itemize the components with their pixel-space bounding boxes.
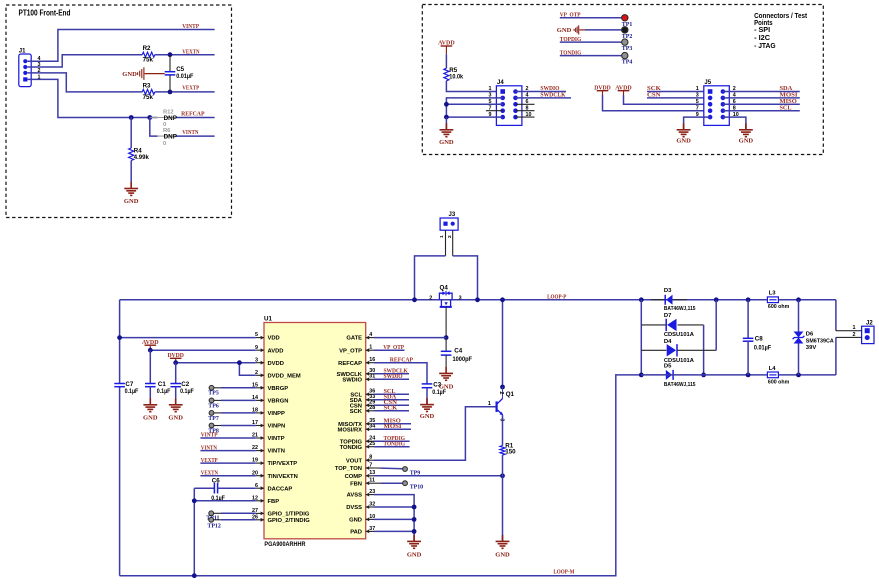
svg-text:COMP: COMP [345,474,363,480]
svg-text:VEXTN: VEXTN [182,49,200,56]
svg-text:8: 8 [369,455,372,461]
wire VINTN stub [200,450,255,452]
wire J3 pin2 to LOOP-P [453,256,478,300]
wire VP_OTP stub [374,349,405,351]
junction J3 left on rail [412,297,417,302]
svg-text:D3: D3 [664,288,672,294]
wire DACCAP down to FBP junction and bottom rail [193,488,195,576]
junction COMP/R1 [500,473,505,478]
wire J1 pin1 to REFCAP row [28,79,158,117]
wire J4 pin3 to ground rail [446,98,502,117]
wire REFCAP right segment [176,117,215,119]
wire VOUT to Q1 base [374,407,496,461]
svg-text:DVDD: DVDD [268,361,284,367]
junction rail at D4 riser [714,297,719,302]
svg-text:TP6: TP6 [208,403,219,409]
svg-text:C2: C2 [181,381,189,388]
wire to J4 ground [445,117,447,130]
junction R4 tap [129,115,134,120]
junction FBP [192,498,197,503]
wire VEXTP right segment [155,91,215,93]
svg-text:GND: GND [349,518,362,524]
svg-text:D7: D7 [664,313,672,319]
svg-text:J1: J1 [19,48,26,54]
svg-text:2: 2 [429,296,432,302]
svg-text:C7: C7 [125,381,133,388]
svg-text:BAT46WJ,115: BAT46WJ,115 [664,382,696,388]
wire Q1 emitter to R1 [502,415,504,446]
svg-text:1: 1 [853,325,856,331]
svg-text:VINTP: VINTP [182,23,199,30]
svg-text:Q4: Q4 [440,284,449,291]
wire TONDIG to TP4 [560,55,622,57]
svg-text:10.0k: 10.0k [449,73,463,80]
resistor R12 DNP [150,117,158,119]
svg-text:0.01µF: 0.01µF [176,73,193,80]
svg-text:Q1: Q1 [506,391,515,398]
wire AVDD pin [150,349,256,351]
wire GATE to Q4 gate node [374,337,446,339]
junction top rail at D6 [796,297,801,302]
svg-text:1: 1 [488,401,491,407]
junction on bottom rail [192,573,197,578]
junction GND pin [412,517,417,522]
ground GND below R4 [130,182,132,189]
svg-text:SWDIO: SWDIO [342,377,362,383]
svg-text:4: 4 [369,332,372,338]
ground GND below R1 [502,535,504,542]
wire J4 pin7 stub [486,110,503,112]
svg-text:GND: GND [168,414,183,421]
ground GND power port at C5 [145,73,165,75]
junction bottom rail at D6 [796,373,801,378]
junction DVSS [412,505,417,510]
junction VDD on left rail [117,335,122,340]
wire Q4 gate to GATE pin [445,307,447,338]
wire SWDCLK stub [374,373,409,375]
svg-text:150: 150 [505,449,516,456]
junction bottom rail at D stack left [639,373,644,378]
wire DVDD pin [176,362,256,364]
svg-text:VDD: VDD [268,336,280,342]
wire VINTN jog [150,118,158,137]
svg-text:4.99k: 4.99k [134,154,150,161]
svg-text:LOOP-M: LOOP-M [553,568,574,575]
svg-text:VBRGP: VBRGP [268,386,289,392]
svg-text:D5: D5 [664,363,672,369]
svg-text:C1: C1 [158,381,166,388]
test point TP8 [209,423,214,428]
wire J2 pin1 from LOOP-P [835,300,837,331]
ground GND power port at TP2 [573,29,575,31]
svg-text:CDSU101A: CDSU101A [664,332,695,338]
svg-text:TONDIG: TONDIG [340,445,363,451]
ground GND below J4 [445,123,447,130]
svg-text:39V: 39V [806,345,817,351]
wire LOOP-P top rail [120,299,836,301]
svg-text:DVSS: DVSS [346,505,362,511]
capacitor C1 0.1uF [149,350,151,383]
wire J5 pin8 SCL [723,110,800,112]
resistor R3 75k [142,89,154,94]
J3 pin leads [445,230,447,256]
wire TP2 [585,29,621,31]
ground GND below AVSS chain [413,535,415,542]
wire SDA stub [374,399,409,401]
test point TP6 [209,398,214,403]
svg-text:GND: GND [143,414,158,421]
test point TP10 [374,482,381,484]
svg-text:GND: GND [420,413,435,420]
wire CSN stub [374,404,409,406]
ground GND below C4 [445,367,447,374]
svg-text:1: 1 [489,86,492,92]
wire VEXTP stub [200,462,255,464]
svg-text:PGA900ARHHR: PGA900ARHHR [264,541,306,548]
wire J1 pin3 to VEXTN [28,55,143,67]
test point TP12 [209,517,214,522]
svg-text:TP5: TP5 [208,391,219,397]
svg-text:VINTN: VINTN [182,129,199,136]
wire FBP [194,500,256,502]
svg-text:FBN: FBN [350,481,362,487]
svg-text:3: 3 [696,93,699,99]
resistor R5 10.0k [444,68,449,81]
wire AVSS chain to ground [374,495,414,542]
svg-text:7: 7 [369,462,372,468]
capacitor C4 1000pF [445,338,447,352]
wire VEXTN right segment [155,54,215,56]
svg-text:MOSI/RX: MOSI/RX [338,427,363,433]
svg-text:0.1µF: 0.1µF [157,388,171,395]
svg-text:DACCAP: DACCAP [268,486,293,492]
svg-text:- JTAG: - JTAG [754,41,776,50]
junction Q1 collector node [500,385,505,390]
svg-text:GND: GND [557,27,572,34]
svg-text:DVDD_MEM: DVDD_MEM [268,373,301,379]
wire R1 to COMP junction and ground [502,455,504,541]
svg-text:C3: C3 [433,381,441,388]
capacitor C2 0.1uF [175,363,177,384]
wire SCK to J5 pin1 [647,91,710,93]
junction J4 gnd pin9 [444,115,449,120]
svg-text:R2: R2 [143,45,151,52]
wire MOSI stub [374,428,411,430]
svg-text:BAT46WJ,115: BAT46WJ,115 [664,306,696,312]
wire J4 pin2 SWDIO [516,91,567,93]
svg-text:1: 1 [369,345,372,351]
svg-text:1: 1 [439,235,445,238]
test point TP3 [622,39,628,45]
ground GND below C1 [149,398,151,405]
svg-text:AVSS: AVSS [347,493,362,499]
junction PAD [412,529,417,534]
svg-text:3: 3 [499,419,505,422]
capacitor C6 0.1uF on DACCAP [194,487,214,489]
wire J4 pin9 [446,116,502,118]
U1 left pins: leads, arrows, numbers, names [256,337,264,339]
junction DVDD_MEM branch [237,360,242,365]
frame: Connectors/Test Points dashed box [422,5,823,155]
op-amp U1 PGA900ARHHR body [264,323,366,539]
wire J4 pin6 stub [516,103,535,105]
svg-text:C8: C8 [755,336,763,343]
svg-text:VINPN: VINPN [268,424,286,430]
test point TP9 [374,467,381,469]
svg-text:TP10: TP10 [410,485,423,491]
junction rail at D stack left [639,297,644,302]
wire LOOP-P to Q1 collector [502,300,504,387]
wire VDD to left rail [120,337,256,339]
svg-text:J5: J5 [704,80,711,86]
svg-text:0.01µF: 0.01µF [754,344,771,351]
svg-text:TP12: TP12 [207,523,220,529]
wire J5 pin4 MOSI [723,97,800,99]
wire J4 pin10 stub [516,116,535,118]
wire left vertical rail [119,300,121,384]
wire REFCAP to C3 [374,363,427,384]
svg-text:GATE: GATE [346,336,362,342]
wire J1 pin4 to VINTP [28,30,215,62]
svg-text:PAD: PAD [350,530,362,536]
wire TOPDIG stub [374,440,410,442]
svg-text:J4: J4 [497,80,504,86]
svg-text:TP7: TP7 [208,416,219,422]
header J5 [704,86,730,126]
svg-text:600 ohm: 600 ohm [768,304,789,310]
U1 right pins: leads, arrows, numbers, names [366,337,374,339]
svg-text:C4: C4 [454,347,462,354]
svg-text:TOP_TON: TOP_TON [335,466,362,472]
header J4 [496,86,522,126]
wire J5 pin2 SDA [723,91,800,93]
svg-text:R3: R3 [143,83,151,90]
connector J3 [440,218,458,230]
svg-text:GND: GND [407,552,422,559]
ground GND below C3 [426,398,428,405]
wire DVSS [374,506,414,508]
ground GND below C2 [175,398,177,405]
svg-text:VINTP: VINTP [268,436,285,442]
wire AVDD to R5 [445,54,447,68]
wire VP_OTP to TP1 [560,17,622,19]
svg-text:U1: U1 [264,316,272,323]
resistor R4 4.99k [129,148,134,160]
junction J4 gnd pin5 [444,102,449,107]
wire D stack left vertical [640,300,642,375]
capacitor C7 0.1uF [114,383,125,385]
wire SCK stub [374,410,409,412]
wire R4 top [130,118,132,149]
svg-text:75k: 75k [143,57,154,64]
svg-text:TIN/VEXTN: TIN/VEXTN [268,474,298,480]
svg-text:GND: GND [739,138,754,145]
svg-text:TIP/VEXTP: TIP/VEXTP [268,461,298,467]
svg-text:3: 3 [459,296,462,302]
frame: PT100 Front-End dashed box [6,5,232,218]
svg-text:GND: GND [439,139,454,146]
svg-text:L3: L3 [769,291,777,297]
junction rail at Q1 [500,297,505,302]
test point TP4 [622,52,628,58]
junction top rail at C8 [746,297,751,302]
svg-text:VBRGN: VBRGN [268,399,289,405]
svg-text:1: 1 [696,86,699,92]
wire J5 pin9 to ground [684,117,711,130]
wire D4 riser to top rail [715,300,717,351]
test point TP7 [209,411,214,416]
diode D6 SM6T39CA TVS [798,300,800,332]
svg-text:1000pF: 1000pF [453,356,473,363]
junction GATE node [444,335,449,340]
svg-text:GPIO_1/TIPDIG: GPIO_1/TIPDIG [268,512,310,518]
test point TP5 [209,385,214,390]
junction DVDD [173,360,178,365]
resistor R2 75k [142,52,154,57]
wire VINTN right segment [176,135,215,137]
wire bottom LOOP-M rail [120,375,642,576]
wire R5 to J4 pin1 [446,81,496,92]
wire TONDIG stub [374,446,410,448]
svg-text:D6: D6 [806,332,814,338]
wire R4 to ground [130,161,132,189]
svg-text:SWDCLK: SWDCLK [540,92,565,99]
svg-text:7: 7 [696,105,699,111]
junction VEXTP/C5 [168,90,173,95]
wire J5 pin10 to ground [723,117,746,130]
wire J2 pin2 to LOOP-M [836,336,862,338]
wire SWDIO stub [374,378,409,380]
capacitor C3 0.1uF [422,383,433,385]
capacitor C5 0.01uF [169,55,171,72]
svg-text:LOOP-P: LOOP-P [547,293,566,300]
svg-text:GND: GND [495,552,510,559]
resistor R6 DNP [158,135,177,137]
svg-text:J2: J2 [866,321,873,327]
ground GND below J5 pin9 [683,123,685,130]
wire J4 pin4 SWDCLK [516,97,572,99]
wire AVDD to J5 pin5 [624,95,711,104]
svg-text:DNP: DNP [164,134,177,141]
junction AVDD [148,348,153,353]
wire SCL stub [374,393,409,395]
svg-text:J3: J3 [449,212,456,218]
svg-text:L4: L4 [769,366,777,372]
svg-text:D4: D4 [664,339,672,345]
svg-text:75k: 75k [143,94,154,101]
test point TP2 [622,27,628,33]
svg-text:2: 2 [498,392,504,395]
svg-text:VINTN: VINTN [268,449,285,455]
wire CSN to J5 pin3 [647,97,710,99]
svg-text:DNP: DNP [164,115,177,122]
svg-text:SCK: SCK [350,409,363,415]
junction VINTN branch [147,115,152,120]
connector J1 [19,54,31,87]
svg-text:FBP: FBP [268,499,280,505]
svg-text:AVDD: AVDD [268,348,284,354]
wire J4 pin5 [446,103,502,105]
svg-text:VOUT: VOUT [346,458,363,464]
connector J2 [862,326,874,343]
svg-text:0.1µF: 0.1µF [125,388,139,395]
svg-text:REFCAP: REFCAP [338,361,362,367]
wire J5 pin6 MISO [723,103,800,105]
wire VINTP stub [200,437,255,439]
junction VEXTN/C5 [168,52,173,57]
test point TP1 [622,15,628,21]
wire DVDD to DVDD_MEM jog [239,363,255,376]
junction bottom rail at C8 [746,373,751,378]
svg-text:REFCAP: REFCAP [181,111,205,118]
capacitor C8 0.01uF [747,300,749,339]
transistor Q1 NPN [502,387,504,398]
wire DVDD to J5 pin7 [603,95,711,111]
wire PAD [374,530,414,532]
svg-text:0.1µF: 0.1µF [432,389,446,396]
wire MISO stub [374,423,411,425]
svg-text:GND: GND [676,138,691,145]
svg-text:0: 0 [163,141,166,147]
wire J3 pin1 to LOOP-P [415,256,446,300]
svg-text:VP_OTP: VP_OTP [339,348,362,354]
svg-text:GND: GND [124,198,139,205]
wire TOPDIG to TP3 [560,41,622,43]
wire VEXTN stub [200,475,255,477]
svg-text:GND: GND [122,71,137,78]
svg-text:2: 2 [447,235,453,238]
wire GND pin [374,518,414,520]
svg-text:GPIO_2/TINDIG: GPIO_2/TINDIG [268,518,311,524]
svg-text:C6: C6 [212,478,220,485]
svg-text:SM6T39CA: SM6T39CA [806,338,835,344]
svg-text:SCL: SCL [780,104,792,111]
wire J1 pin2 to VEXTP [28,73,143,92]
svg-text:VEXTP: VEXTP [182,85,199,92]
wire J4 pin8 stub [516,110,535,112]
svg-text:TP4: TP4 [622,60,633,66]
ground GND below J5 pin10 [745,123,747,130]
wire D7 to bottom rail [703,325,705,375]
svg-text:VINPP: VINPP [268,411,286,417]
resistor R1 150 [500,446,505,456]
svg-text:2: 2 [853,332,856,338]
wire bottom rail right section [641,374,836,376]
svg-text:0.1µF: 0.1µF [180,388,194,395]
junction J3 right on rail [475,297,480,302]
svg-text:600 ohm: 600 ohm [768,379,789,385]
junction bottom rail at D7 riser [701,373,706,378]
wire COMP to R1 bottom [374,475,503,477]
svg-text:PT100 Front-End: PT100 Front-End [19,9,71,18]
svg-text:TP3: TP3 [622,46,633,52]
svg-text:5: 5 [696,99,699,105]
